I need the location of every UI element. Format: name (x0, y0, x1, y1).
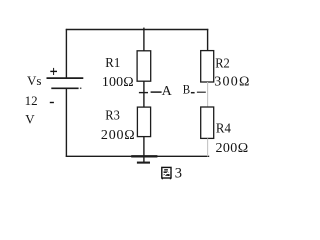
wire left lower vertical (65, 88, 67, 157)
caption tu glyph box (162, 167, 171, 179)
svg-text:200Ω: 200Ω (101, 128, 135, 143)
svg-text:A: A (162, 84, 173, 99)
battery Vs positive plate (47, 77, 84, 79)
svg-text:V: V (25, 112, 35, 127)
svg-text:R1: R1 (105, 56, 120, 71)
svg-text:12: 12 (25, 93, 38, 108)
wire R2 to R4 vertical light (207, 82, 209, 107)
wire left upper vertical (65, 29, 67, 78)
node A tick across wire (139, 92, 148, 94)
resistor R1 box (137, 51, 151, 81)
node A dash (151, 91, 162, 93)
svg-text:B: B (183, 82, 191, 97)
svg-text:R4: R4 (216, 121, 231, 136)
battery Vs negative plate (51, 87, 78, 89)
battery negative plate end dot (80, 88, 82, 90)
svg-text:100Ω: 100Ω (102, 75, 134, 90)
wire R1 to R3 vertical (143, 81, 145, 107)
ground bar 1 (131, 155, 157, 157)
resistor R4 box (201, 107, 214, 138)
svg-text:3: 3 (175, 166, 182, 182)
svg-text:300Ω: 300Ω (214, 75, 249, 90)
svg-text:R2: R2 (215, 57, 230, 72)
svg-text:R3: R3 (105, 109, 120, 124)
battery plus sign (50, 68, 57, 75)
wire R3 to ground (143, 137, 145, 163)
wire stub top to R2 (207, 29, 209, 51)
svg-text:Vs: Vs (27, 73, 41, 88)
resistor R3 box (137, 107, 150, 137)
node B dash 2 (197, 91, 206, 93)
battery minus sign (50, 102, 54, 104)
wire stub top to R1 (143, 28, 145, 51)
ground bar 2 (137, 162, 150, 164)
wire bottom horizontal (66, 155, 209, 157)
node B dash 1 (191, 92, 195, 94)
wire R4 to bottom light (207, 138, 209, 156)
resistor R2 box (201, 51, 214, 82)
svg-text:200Ω: 200Ω (216, 141, 249, 156)
wire top horizontal (66, 29, 209, 31)
